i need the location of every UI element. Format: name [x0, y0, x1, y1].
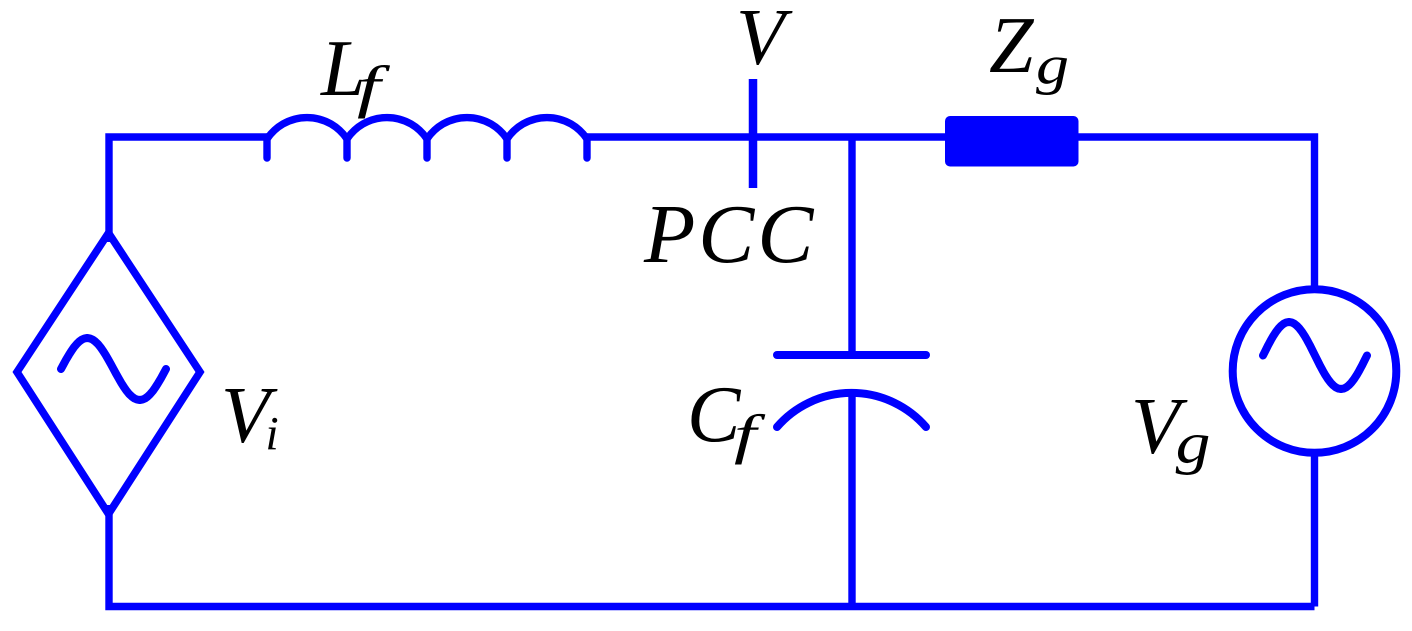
svg-text:g: g [1036, 36, 1069, 97]
source Vg circle [1233, 289, 1397, 453]
wire top-right [1079, 137, 1315, 292]
svg-text:V: V [736, 0, 793, 82]
wire top-middle [587, 133, 945, 140]
source Vi sine [61, 338, 166, 400]
svg-text:Z: Z [989, 2, 1035, 90]
wire right-bottom [1311, 450, 1318, 607]
capacitor Cf top plate [777, 351, 926, 359]
svg-text:f: f [734, 404, 765, 465]
source Vi diamond [17, 233, 200, 514]
node V probe tick [749, 79, 758, 188]
wire bottom [109, 505, 1315, 607]
wire capacitor branch bottom [848, 391, 855, 607]
source Vg sine [1263, 322, 1367, 389]
capacitor Cf curved plate [777, 393, 926, 427]
svg-text:PCC: PCC [643, 188, 816, 281]
wire top-left [109, 137, 267, 242]
svg-text:f: f [357, 55, 391, 119]
svg-text:g: g [1176, 411, 1211, 475]
inductor L_f [267, 118, 587, 158]
wire capacitor branch top [848, 137, 855, 355]
svg-text:i: i [265, 408, 278, 461]
impedance Zg (filled block) [945, 116, 1079, 167]
